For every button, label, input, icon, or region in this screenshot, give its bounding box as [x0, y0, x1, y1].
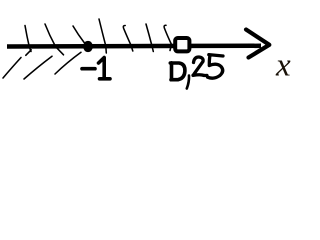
- wire: hatch stroke S4: [99, 19, 106, 53]
- wire: lower slash B1: [3, 58, 21, 79]
- label: decimal comma of 0,25: [187, 76, 189, 89]
- wire: lower slash B2: [24, 56, 52, 79]
- wire: main number-line axis: [7, 44, 261, 49]
- label: digit 5 of 0,25: [208, 55, 223, 79]
- node A: axis arrowhead: [246, 30, 269, 58]
- wire: hatch stroke S7: [164, 25, 171, 50]
- label: minus sign of -1: [82, 67, 95, 71]
- wire: hatch stroke S5: [123, 25, 132, 51]
- wire: hatch stroke S2: [45, 24, 64, 55]
- label: digit 1 of -1: [99, 58, 111, 79]
- label: digit 0 of 0,25: [170, 63, 185, 80]
- label: digit 2 of 0,25: [193, 57, 207, 76]
- node: filled point at -1: [83, 41, 93, 52]
- wire: hatch stroke S3: [73, 26, 85, 43]
- svg-text:x: x: [275, 48, 291, 84]
- node: open square point at 0.25: [175, 38, 189, 51]
- wire: lower slash B3: [55, 52, 81, 74]
- wire: hatch stroke S6: [146, 24, 153, 52]
- wire: hatch stroke S1: [25, 26, 31, 56]
